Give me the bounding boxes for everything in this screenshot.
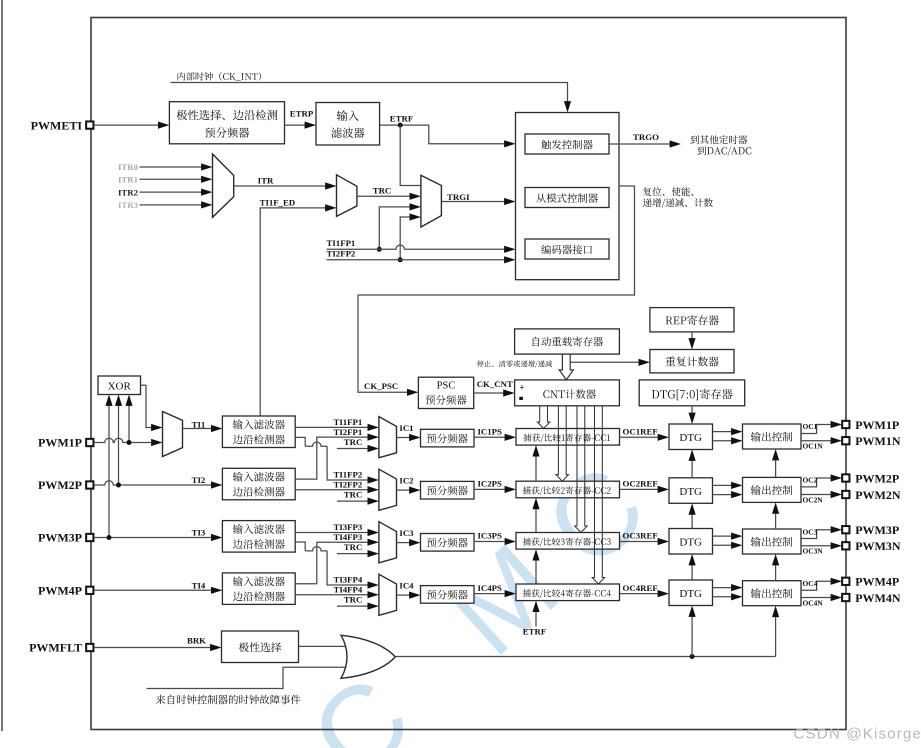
wire PWM4P to filter4 bbox=[94, 589, 213, 591]
wire TI2FP2 to encoder bbox=[327, 259, 507, 261]
wire brk stub outctrl2 bbox=[775, 511, 777, 529]
mux TRC select bbox=[337, 175, 357, 217]
svg-text:OC4: OC4 bbox=[803, 579, 818, 588]
wire IC2 to prescaler bbox=[397, 489, 412, 491]
wire filter4 out1 up to mux3 bbox=[295, 542, 370, 584]
box output control 4 bbox=[743, 581, 802, 606]
port pin PWM3P bbox=[86, 534, 93, 541]
box output control 1 bbox=[743, 424, 802, 449]
box capture compare 1 bbox=[516, 429, 620, 446]
svg-text:TI2FP2: TI2FP2 bbox=[333, 480, 362, 490]
svg-text:PWM3N: PWM3N bbox=[855, 539, 901, 553]
outer frame bbox=[91, 18, 846, 730]
wire slave ctrl wrap to PSC bbox=[358, 186, 635, 392]
wire TRC stub row3 bbox=[337, 553, 370, 555]
wire capture stub CC4 bbox=[535, 610, 537, 627]
svg-text:ITR0: ITR0 bbox=[118, 162, 139, 172]
wire BRK up to DTG4 bbox=[691, 615, 693, 657]
svg-text:OC1REF: OC1REF bbox=[623, 427, 658, 437]
svg-text:TI3: TI3 bbox=[192, 528, 206, 538]
port pin PWM4P bbox=[86, 587, 93, 594]
svg-text:TI2FP1: TI2FP1 bbox=[333, 427, 362, 437]
svg-text:ITR3: ITR3 bbox=[118, 200, 139, 210]
text PSC prescaler cjk bbox=[426, 395, 467, 405]
box output control 2 bbox=[743, 477, 802, 502]
wire OC1REF bbox=[620, 436, 661, 438]
wire OC3N out bbox=[801, 545, 833, 547]
port pin PWM2N right bbox=[842, 491, 849, 498]
box capture compare 2 bbox=[516, 481, 620, 498]
port pin PWM4P right bbox=[842, 578, 849, 585]
port pin PWM1P bbox=[86, 439, 93, 446]
text filter4 l1 bbox=[233, 576, 285, 586]
text filter3 l1 bbox=[233, 524, 285, 534]
box DTG 3 bbox=[669, 529, 713, 555]
wire BRK up to outctrl4 bbox=[775, 615, 777, 657]
box DTG 1 bbox=[669, 424, 713, 450]
svg-text:OC4REF: OC4REF bbox=[623, 583, 658, 593]
box PSC prescaler bbox=[418, 377, 473, 408]
wire filter4 out2 to mux4 bbox=[295, 594, 370, 596]
svg-text:ITR1: ITR1 bbox=[118, 175, 138, 185]
text stop clear updown (small) bbox=[477, 360, 552, 367]
wire IC1 to prescaler bbox=[397, 437, 412, 439]
box DTG register bbox=[639, 380, 745, 406]
svg-text:DTG: DTG bbox=[679, 486, 702, 498]
mux TI1 select bbox=[163, 412, 183, 457]
svg-text:IC3: IC3 bbox=[399, 528, 414, 538]
box output control 3 bbox=[743, 529, 802, 554]
wire TRC to TRGI mux bbox=[357, 195, 412, 197]
text auto reload register bbox=[533, 337, 603, 347]
svg-text:TI4: TI4 bbox=[192, 580, 206, 590]
svg-text:ETRF: ETRF bbox=[390, 114, 413, 124]
box prescaler 2 bbox=[421, 481, 475, 499]
wire TRC stub row4 bbox=[337, 605, 370, 607]
wire OC2 out bbox=[801, 478, 833, 487]
gate OR brk bbox=[341, 635, 395, 678]
wire xor arrow 1 bbox=[128, 404, 130, 443]
text output control 3 bbox=[751, 537, 793, 547]
svg-text:PWM2P: PWM2P bbox=[855, 471, 899, 485]
wire ETRP bbox=[285, 124, 308, 126]
text capture compare 4 bbox=[523, 589, 611, 598]
wire xor arrow 2 bbox=[118, 404, 120, 486]
svg-text:TRC: TRC bbox=[373, 185, 392, 195]
port pin PWM2P right bbox=[842, 474, 849, 481]
mux IC1 bbox=[379, 417, 397, 458]
wire OC1N out bbox=[801, 440, 833, 442]
svg-text:IC1PS: IC1PS bbox=[478, 427, 503, 437]
text slave mode controller bbox=[536, 193, 598, 203]
svg-text:OC4N: OC4N bbox=[803, 598, 824, 607]
svg-text:TI4FP3: TI4FP3 bbox=[333, 532, 362, 542]
box XOR bbox=[98, 376, 141, 395]
svg-text:TI2: TI2 bbox=[192, 475, 206, 485]
text filter3 l2 bbox=[233, 539, 285, 549]
svg-text:ITR2: ITR2 bbox=[118, 187, 139, 197]
node ETRF junction bbox=[398, 123, 403, 128]
svg-text:PWM1P: PWM1P bbox=[855, 418, 899, 432]
wire TRC stub row1 bbox=[337, 448, 370, 450]
wire brk stub outctrl3 bbox=[775, 563, 777, 581]
port pin PWM4N right bbox=[842, 594, 849, 601]
text encoder interface bbox=[541, 245, 592, 255]
svg-text:PSC: PSC bbox=[437, 381, 456, 392]
box DTG 2 bbox=[669, 478, 713, 504]
svg-text:PWMFLT: PWMFLT bbox=[29, 641, 82, 655]
box input filter (ETR) bbox=[316, 103, 380, 146]
page border left bbox=[1, 0, 3, 731]
box polarity select edge detect prescaler bbox=[169, 102, 284, 144]
text input filter l2 bbox=[331, 128, 364, 138]
wire TRGI to slave mode ctrl bbox=[441, 201, 506, 203]
box repeat counter bbox=[650, 350, 734, 373]
wire capture stub CC2 bbox=[535, 507, 537, 533]
wire filter1 out2 jog down bbox=[295, 437, 305, 446]
svg-text:PWM2N: PWM2N bbox=[855, 488, 901, 502]
port pin PWM1N right bbox=[842, 437, 849, 444]
node BRK junction bbox=[690, 654, 695, 659]
box prescaler 3 bbox=[421, 534, 475, 552]
text polarity select brk bbox=[239, 642, 282, 652]
svg-text:OC1N: OC1N bbox=[803, 442, 824, 451]
svg-text:TRC: TRC bbox=[344, 542, 363, 552]
text filter2 l1 bbox=[233, 472, 285, 482]
wire ITR3 bbox=[140, 204, 204, 206]
text DTG register bbox=[652, 389, 733, 401]
wire CK_CNT bbox=[474, 392, 506, 394]
text filter1 l1 bbox=[233, 419, 285, 429]
port pin PWMFLT bbox=[86, 644, 93, 651]
hollow arrow CNT to CC3 bbox=[575, 406, 587, 533]
svg-text:PWM4P: PWM4P bbox=[38, 584, 82, 598]
wire TI2FP2 up to TRGI mux bbox=[400, 217, 412, 260]
svg-text:TI3FP4: TI3FP4 bbox=[333, 575, 362, 585]
svg-text:OC1: OC1 bbox=[803, 422, 818, 431]
box DTG 4 bbox=[669, 580, 713, 606]
svg-text:PWM2P: PWM2P bbox=[38, 478, 82, 492]
port pin PWM2P bbox=[86, 481, 93, 488]
wire ITR to TRC mux bbox=[234, 185, 328, 187]
svg-text:DTG: DTG bbox=[679, 432, 702, 444]
svg-text:IC3PS: IC3PS bbox=[478, 531, 503, 541]
wire PWM1P to TI1 mux bbox=[94, 438, 154, 442]
box polarity select (brk) bbox=[222, 631, 299, 663]
box slave mode controller bbox=[525, 188, 609, 208]
wire filter2 out2 to mux2 bbox=[295, 489, 370, 491]
wire brk stub DTG2 bbox=[691, 512, 693, 528]
wire CK_INT bbox=[171, 83, 568, 104]
svg-text:PWM3P: PWM3P bbox=[38, 531, 82, 545]
svg-text:TRC: TRC bbox=[344, 595, 363, 605]
svg-text:TI3FP3: TI3FP3 bbox=[333, 522, 362, 532]
text filter4 l2 bbox=[233, 591, 285, 601]
wire brk stub outctrl1 bbox=[775, 458, 777, 477]
text minus bbox=[519, 397, 523, 400]
wire update to repeat counter bbox=[570, 361, 641, 363]
box input filter edge detector 2 bbox=[222, 468, 295, 500]
wire TRC stub row2 bbox=[337, 500, 370, 502]
hollow arrow CNT to CC2 bbox=[556, 406, 568, 481]
text updown count bbox=[643, 198, 713, 208]
box prescaler 4 bbox=[421, 586, 475, 604]
wire XOR out to TI1 mux bbox=[141, 385, 155, 427]
wire IC1PS bbox=[474, 436, 507, 438]
wire OC4N out bbox=[801, 597, 833, 599]
wire OC2REF bbox=[620, 488, 661, 490]
svg-text:BRK: BRK bbox=[187, 635, 206, 645]
svg-text:TI1FP1: TI1FP1 bbox=[333, 417, 362, 427]
wire filter2 out1 up to mux1 bbox=[295, 437, 370, 479]
port pin PWM3N right bbox=[842, 542, 849, 549]
text clock failure event bbox=[156, 695, 301, 705]
wire PWMETI to polarity box bbox=[94, 124, 161, 126]
text polarity line2 bbox=[205, 127, 249, 138]
svg-text:OC2REF: OC2REF bbox=[623, 479, 658, 489]
wire OC1 out bbox=[801, 425, 833, 434]
svg-text:CSDN @Kisorge: CSDN @Kisorge bbox=[794, 726, 921, 743]
wire ETRF down to TRGI mux bbox=[400, 125, 421, 185]
text reset enable bbox=[643, 187, 693, 196]
svg-text:CK_CNT: CK_CNT bbox=[477, 379, 513, 389]
wire IC3PS bbox=[474, 541, 507, 543]
wire TI1F_ED bbox=[260, 208, 327, 416]
svg-text:TI1FP2: TI1FP2 bbox=[333, 470, 362, 480]
text prescaler 1 bbox=[427, 434, 468, 444]
node PWM3P xor tap bbox=[107, 535, 112, 540]
svg-text:DTG: DTG bbox=[679, 588, 702, 600]
node TI2FP2 junction bbox=[398, 257, 403, 262]
text capture compare 2 bbox=[523, 486, 611, 495]
wire clock fail to OR bbox=[147, 667, 348, 688]
wire IC2PS bbox=[474, 488, 507, 490]
box capture compare 3 bbox=[516, 533, 620, 550]
hollow arrow ARR to CNT bbox=[559, 354, 573, 380]
text output control 1 bbox=[751, 432, 793, 442]
wire DTG4 to outctrl a bbox=[713, 587, 734, 589]
mux IC3 bbox=[379, 522, 397, 563]
svg-text:+: + bbox=[519, 382, 524, 392]
svg-text:IC2PS: IC2PS bbox=[478, 479, 503, 489]
wire xor arrow 3 bbox=[108, 404, 110, 538]
svg-text:TRC: TRC bbox=[344, 490, 363, 500]
text prescaler 2 bbox=[427, 486, 468, 496]
text output control 2 bbox=[751, 485, 793, 495]
svg-text:ITR: ITR bbox=[258, 175, 274, 185]
wire PWMFLT to polarity bbox=[94, 647, 213, 649]
text filter2 l2 bbox=[233, 487, 285, 497]
wire filter1 out1 to mux1 bbox=[295, 426, 370, 428]
text to DAC/ADC bbox=[697, 146, 751, 156]
text capture compare 1 bbox=[523, 433, 610, 442]
mux TRGI select bbox=[421, 175, 442, 227]
svg-text:TI1: TI1 bbox=[192, 419, 206, 429]
box CNT counter bbox=[515, 380, 620, 406]
wire DTGreg to DTG1 bbox=[691, 406, 693, 415]
text to other timers bbox=[690, 135, 747, 144]
wire brk stub DTG3 bbox=[691, 563, 693, 580]
wire ITR2 bbox=[140, 191, 204, 193]
svg-text:TRGI: TRGI bbox=[447, 192, 470, 202]
node TI1FP1 junction bbox=[377, 247, 382, 252]
wire OC3REF bbox=[620, 541, 661, 543]
svg-text:OC2N: OC2N bbox=[803, 495, 824, 504]
text prescaler 4 bbox=[427, 590, 468, 600]
wire REP to repeat counter bbox=[691, 332, 693, 341]
wire capture stub CC1 bbox=[535, 454, 537, 481]
wire IC4 to prescaler bbox=[397, 594, 412, 596]
wire TRGO bbox=[609, 143, 672, 145]
text output control 4 bbox=[751, 588, 793, 598]
wire filter3 out1 to mux3 bbox=[295, 532, 370, 534]
svg-text:PWMETI: PWMETI bbox=[31, 118, 83, 132]
wire DTG3 to outctrl a bbox=[713, 535, 734, 537]
wire PWM2P to filter2 bbox=[94, 481, 213, 485]
wire TI1FP1 up to TRGI mux bbox=[379, 207, 412, 249]
wire DTG2 to outctrl a bbox=[713, 484, 734, 486]
svg-text:PWM4N: PWM4N bbox=[855, 591, 901, 605]
wire ETRF to trigger ctrl bbox=[380, 125, 507, 144]
hollow arrow CNT to CC1 bbox=[537, 406, 549, 429]
text REP register bbox=[666, 315, 719, 325]
svg-text:PWM3P: PWM3P bbox=[855, 523, 899, 537]
wire PWM3P to filter3 bbox=[94, 537, 213, 539]
svg-text:IC2: IC2 bbox=[399, 476, 414, 486]
svg-text:IC1: IC1 bbox=[399, 423, 413, 433]
wire filter3 out2 jog down bbox=[295, 542, 305, 551]
wire DTG2 to outctrl b bbox=[713, 494, 734, 496]
port pin PWMETI bbox=[86, 121, 93, 128]
text repeat counter bbox=[665, 357, 718, 367]
hollow arrow CNT to CC4 bbox=[592, 406, 604, 584]
text polarity line1 bbox=[176, 110, 277, 120]
box trigger controller bbox=[525, 134, 609, 154]
text filter1 l2 bbox=[233, 435, 285, 445]
svg-text:DTG: DTG bbox=[679, 537, 702, 549]
node PWM1P xor tap bbox=[127, 440, 132, 445]
wire DTG4 to outctrl b bbox=[713, 596, 734, 598]
box input filter edge detector 1 bbox=[222, 416, 295, 448]
svg-text:OC2: OC2 bbox=[803, 476, 818, 485]
wire IC4PS bbox=[474, 593, 507, 595]
wire BRK bus bbox=[395, 656, 775, 658]
text prescaler 3 bbox=[427, 538, 468, 548]
label internal clock CK_INT bbox=[178, 72, 262, 81]
text capture compare 3 bbox=[523, 537, 611, 546]
wire TI1 mux to filter1 bbox=[183, 428, 214, 430]
svg-text:ETRP: ETRP bbox=[290, 108, 314, 118]
svg-text:ETRF: ETRF bbox=[523, 626, 546, 636]
svg-text:TRGO: TRGO bbox=[633, 132, 659, 142]
box auto reload register bbox=[515, 329, 620, 354]
wire OC4 out bbox=[801, 581, 833, 590]
svg-text:TI1FP1: TI1FP1 bbox=[327, 238, 356, 248]
wire DTG1 to outctrl a bbox=[713, 431, 734, 433]
svg-text:TI4FP4: TI4FP4 bbox=[333, 585, 362, 595]
port pin PWM3P right bbox=[842, 526, 849, 533]
svg-text:PWM4P: PWM4P bbox=[855, 575, 899, 589]
mux IC2 bbox=[379, 469, 397, 510]
svg-text:PWM1P: PWM1P bbox=[38, 436, 82, 450]
wire brk stub DTG1 bbox=[691, 459, 693, 478]
wire OC3 out bbox=[801, 530, 833, 539]
svg-text:IC4PS: IC4PS bbox=[478, 583, 503, 593]
box REP register bbox=[650, 308, 734, 332]
box encoder interface bbox=[525, 239, 609, 259]
box input filter edge detector 3 bbox=[222, 521, 295, 553]
svg-text:IC4: IC4 bbox=[399, 581, 414, 591]
box trigger block outline bbox=[516, 113, 620, 280]
box input filter edge detector 4 bbox=[222, 573, 295, 605]
wire capture stub CC3 bbox=[535, 558, 537, 584]
text input filter l1 bbox=[337, 110, 359, 121]
node PWM2P xor tap bbox=[116, 483, 121, 488]
box capture compare 4 bbox=[516, 584, 620, 601]
svg-text:CK_PSC: CK_PSC bbox=[364, 381, 398, 391]
box prescaler 1 bbox=[421, 429, 475, 447]
svg-text:TI2FP2: TI2FP2 bbox=[327, 249, 356, 259]
text CNT counter bbox=[543, 389, 596, 399]
svg-text:TI1F_ED: TI1F_ED bbox=[260, 197, 296, 207]
wire OC2N out bbox=[801, 494, 833, 496]
svg-text:OC3: OC3 bbox=[803, 527, 818, 536]
mux IC4 bbox=[379, 574, 397, 615]
svg-text:TRC: TRC bbox=[344, 437, 363, 447]
wire polarity to OR bbox=[299, 645, 350, 647]
mux ITR select bbox=[213, 154, 234, 217]
wire DTG1 to outctrl b bbox=[713, 440, 734, 442]
wire IC3 to prescaler bbox=[397, 542, 412, 544]
wire ITR1 bbox=[140, 178, 204, 180]
text trigger controller bbox=[541, 140, 592, 150]
wire DTG3 to outctrl b bbox=[713, 544, 734, 546]
wire TI1FP1 to encoder bbox=[327, 245, 507, 249]
svg-text:OC3REF: OC3REF bbox=[623, 531, 658, 541]
wire ITR0 bbox=[140, 166, 204, 168]
svg-text:OC3N: OC3N bbox=[803, 547, 824, 556]
wire OC4REF bbox=[620, 593, 661, 595]
svg-text:XOR: XOR bbox=[108, 381, 132, 393]
svg-text:PWM1N: PWM1N bbox=[855, 434, 901, 448]
port pin PWM1P right bbox=[842, 421, 849, 428]
